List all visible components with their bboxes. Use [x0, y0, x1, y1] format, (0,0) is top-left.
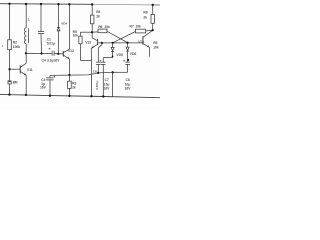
- svg-text:C6: C6: [93, 70, 97, 74]
- svg-text:VD5: VD5: [116, 53, 123, 57]
- svg-text:10k: 10k: [135, 24, 141, 28]
- svg-text:V11: V11: [27, 68, 33, 72]
- svg-text:VD6: VD6: [130, 52, 137, 56]
- svg-text:2k: 2k: [72, 85, 76, 89]
- svg-text:C8: C8: [126, 78, 130, 82]
- svg-text:3.3μ16V: 3.3μ16V: [47, 59, 60, 63]
- svg-text:100k: 100k: [13, 45, 20, 49]
- svg-text:16V: 16V: [125, 87, 132, 91]
- svg-text:16V: 16V: [104, 87, 111, 91]
- svg-text:V14: V14: [138, 40, 144, 44]
- svg-text:C7: C7: [105, 78, 109, 82]
- svg-text:R6: R6: [98, 25, 102, 29]
- svg-text:V13: V13: [85, 41, 91, 45]
- svg-text:2k: 2k: [143, 15, 147, 19]
- svg-text:16V: 16V: [40, 85, 47, 89]
- svg-text:2k: 2k: [96, 15, 100, 19]
- svg-text:10k: 10k: [73, 34, 79, 38]
- svg-text:L: L: [28, 17, 30, 21]
- svg-text:BM: BM: [13, 80, 18, 84]
- svg-text:VD4: VD4: [61, 22, 67, 26]
- svg-text:R7: R7: [130, 24, 134, 28]
- svg-text:10k: 10k: [153, 45, 159, 49]
- svg-text:R2: R2: [13, 41, 17, 45]
- svg-text:C4: C4: [42, 59, 46, 63]
- svg-text:10k: 10k: [104, 25, 110, 29]
- svg-text:0.01μ: 0.01μ: [47, 42, 55, 46]
- svg-text:R4: R4: [96, 10, 100, 14]
- svg-text:0.001μ: 0.001μ: [95, 80, 99, 89]
- svg-text:R8: R8: [143, 10, 147, 14]
- svg-text:V12: V12: [68, 49, 74, 53]
